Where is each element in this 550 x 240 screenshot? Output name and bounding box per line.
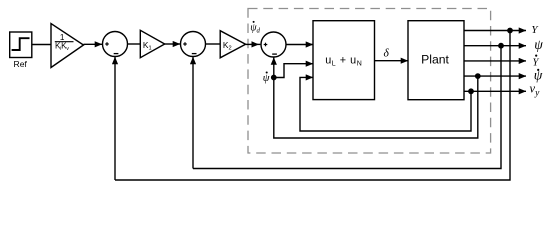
svg-text:Plant: Plant	[421, 53, 449, 67]
svg-text:ψ: ψ	[534, 37, 543, 52]
label psidot at junction	[263, 71, 270, 84]
svg-text:ψd: ψd	[250, 23, 260, 35]
controller block uL+uN	[313, 21, 375, 100]
wire S1 to K1	[127, 43, 140, 45]
step source Ref	[10, 32, 32, 58]
wire gain to S1	[84, 43, 103, 45]
wire delta: controller to plant	[375, 60, 409, 62]
wire S2 to K2	[205, 43, 220, 45]
summing junction S3	[261, 32, 286, 57]
svg-text:ψ: ψ	[263, 72, 270, 84]
svg-text:vy: vy	[530, 81, 541, 98]
output wire Y	[464, 30, 526, 32]
svg-text:uL + uN: uL + uN	[325, 55, 362, 68]
svg-text:K2: K2	[223, 40, 232, 51]
label 1/KiKv	[55, 33, 69, 52]
node vy tap	[469, 89, 473, 93]
wire Ref to gain	[32, 44, 51, 46]
node psi tap	[499, 44, 503, 48]
label Ydot	[533, 55, 540, 69]
node psidot tap	[476, 74, 480, 78]
svg-text:Y: Y	[531, 24, 539, 36]
summing junction S1	[103, 32, 128, 57]
wire psidot branch to controller input 2	[274, 64, 313, 78]
wire psidot feedback	[274, 76, 478, 138]
wire Y feedback down	[115, 31, 510, 181]
svg-text:δ: δ	[384, 48, 390, 60]
svg-text:KiKv: KiKv	[55, 42, 69, 53]
node psidot junction	[272, 75, 276, 79]
svg-text:K1: K1	[143, 40, 152, 51]
feedback arrow into S3	[273, 58, 275, 78]
summing junction S2	[181, 32, 206, 57]
gain 1/(KiKv)	[51, 24, 84, 68]
feedback arrow into S1	[114, 57, 116, 180]
dashed subsystem boundary	[248, 9, 491, 154]
wire K1 to S2	[165, 43, 180, 45]
label psidot	[534, 67, 543, 82]
gain K1	[140, 30, 164, 57]
feedback arrow into S2	[192, 57, 194, 169]
node Y tap	[508, 28, 512, 32]
label psi	[534, 37, 543, 52]
wire psi feedback down	[193, 46, 501, 169]
wire S3 to controller block	[286, 44, 313, 46]
output wire psidot	[464, 75, 526, 77]
plant block	[408, 21, 464, 100]
output wire psi	[464, 45, 526, 47]
wire K2 into subsystem to S3	[246, 43, 261, 45]
output wire Ydot	[464, 60, 526, 62]
wire vy feedback to controller input 3	[300, 77, 471, 131]
label psidot_d	[250, 21, 260, 35]
output wire vy	[464, 90, 526, 92]
gain K2	[220, 31, 245, 58]
svg-text:Ref: Ref	[14, 59, 28, 69]
